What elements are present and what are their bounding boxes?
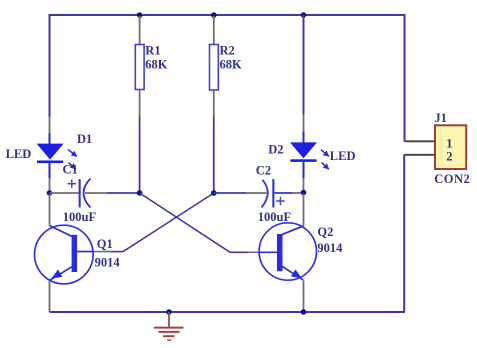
svg-text:J1: J1 bbox=[434, 111, 447, 125]
svg-text:D2: D2 bbox=[268, 142, 283, 156]
svg-text:D1: D1 bbox=[77, 132, 92, 146]
node junction B2 (R2 / C2 / Q1 base coupling) bbox=[211, 190, 217, 196]
svg-text:1: 1 bbox=[446, 136, 452, 150]
node junction bottom rail / Q2 emitter bbox=[301, 309, 307, 315]
wire right border upper (top rail to J1 pin 1) bbox=[404, 14, 406, 141]
resistor R2 bbox=[210, 16, 219, 117]
resistor R1 bbox=[135, 16, 144, 117]
wire D2 cathode to node C bbox=[303, 178, 305, 192]
wire R1 bottom lead to node B1 bbox=[139, 117, 141, 194]
svg-text:R1: R1 bbox=[145, 43, 160, 57]
node junction top rail / R1 bbox=[137, 12, 143, 18]
svg-text:2: 2 bbox=[446, 149, 452, 163]
svg-text:Q2: Q2 bbox=[317, 225, 333, 239]
svg-text:CON2: CON2 bbox=[434, 172, 470, 186]
wire Q1 collector lead from node A bbox=[49, 194, 51, 226]
node junction top rail / D2 bbox=[301, 12, 307, 18]
wire left border (top rail down to LED D1 anode) bbox=[49, 14, 51, 117]
wire bottom rail GND bbox=[50, 311, 406, 313]
node junction B1 (R1 / C1 / Q2 base coupling) bbox=[137, 190, 143, 196]
wire D2 anode from top rail bbox=[303, 15, 305, 115]
wire right border lower (J1 pin 2 to bottom rail) bbox=[403, 155, 405, 312]
node junction top rail / R2 bbox=[211, 12, 217, 18]
svg-text:C2: C2 bbox=[256, 163, 271, 177]
svg-text:68K: 68K bbox=[220, 58, 243, 72]
transistor Q1 bbox=[35, 225, 94, 284]
node junction bottom rail / ground bbox=[166, 309, 172, 315]
svg-text:LED: LED bbox=[6, 147, 32, 161]
connector J1 pin 1 lead bbox=[405, 140, 436, 142]
wire Q2 collector lead from node C bbox=[303, 194, 305, 226]
svg-text:Q1: Q1 bbox=[97, 237, 113, 251]
capacitor C1 bbox=[50, 179, 108, 208]
wire Q2 emitter to bottom rail bbox=[303, 281, 305, 313]
svg-text:68K: 68K bbox=[145, 58, 168, 72]
wire cross-coupling diagonal B2 to Q1 base bbox=[123, 193, 214, 252]
ground symbol bbox=[154, 312, 184, 340]
wire D1 cathode to node A bbox=[49, 178, 51, 192]
connector J1 pin 2 lead bbox=[404, 154, 435, 156]
svg-text:LED: LED bbox=[330, 149, 356, 163]
wire Q1 emitter to bottom rail bbox=[49, 281, 51, 313]
capacitor C2 bbox=[214, 179, 302, 208]
wire top rail VCC bbox=[50, 14, 406, 16]
svg-text:9014: 9014 bbox=[95, 256, 121, 270]
node junction A (D1 / C1 / Q1 collector) bbox=[47, 190, 53, 196]
connector J1 bbox=[435, 125, 466, 169]
svg-text:R2: R2 bbox=[220, 43, 235, 57]
wire cross-coupling diagonal B1 to Q2 base bbox=[140, 193, 230, 252]
wire C1 right plate to node B1 bbox=[107, 192, 140, 194]
wire R2 bottom lead to node B2 bbox=[213, 117, 215, 194]
svg-text:100uF: 100uF bbox=[258, 210, 292, 224]
LED D1 bbox=[37, 133, 77, 178]
svg-text:9014: 9014 bbox=[317, 241, 343, 255]
node junction C (D2 / C2 / Q2 collector) bbox=[301, 190, 307, 196]
transistor Q2 bbox=[259, 223, 316, 280]
svg-text:C1: C1 bbox=[63, 163, 78, 177]
svg-text:100uF: 100uF bbox=[63, 210, 97, 224]
LED D2 bbox=[290, 132, 329, 179]
